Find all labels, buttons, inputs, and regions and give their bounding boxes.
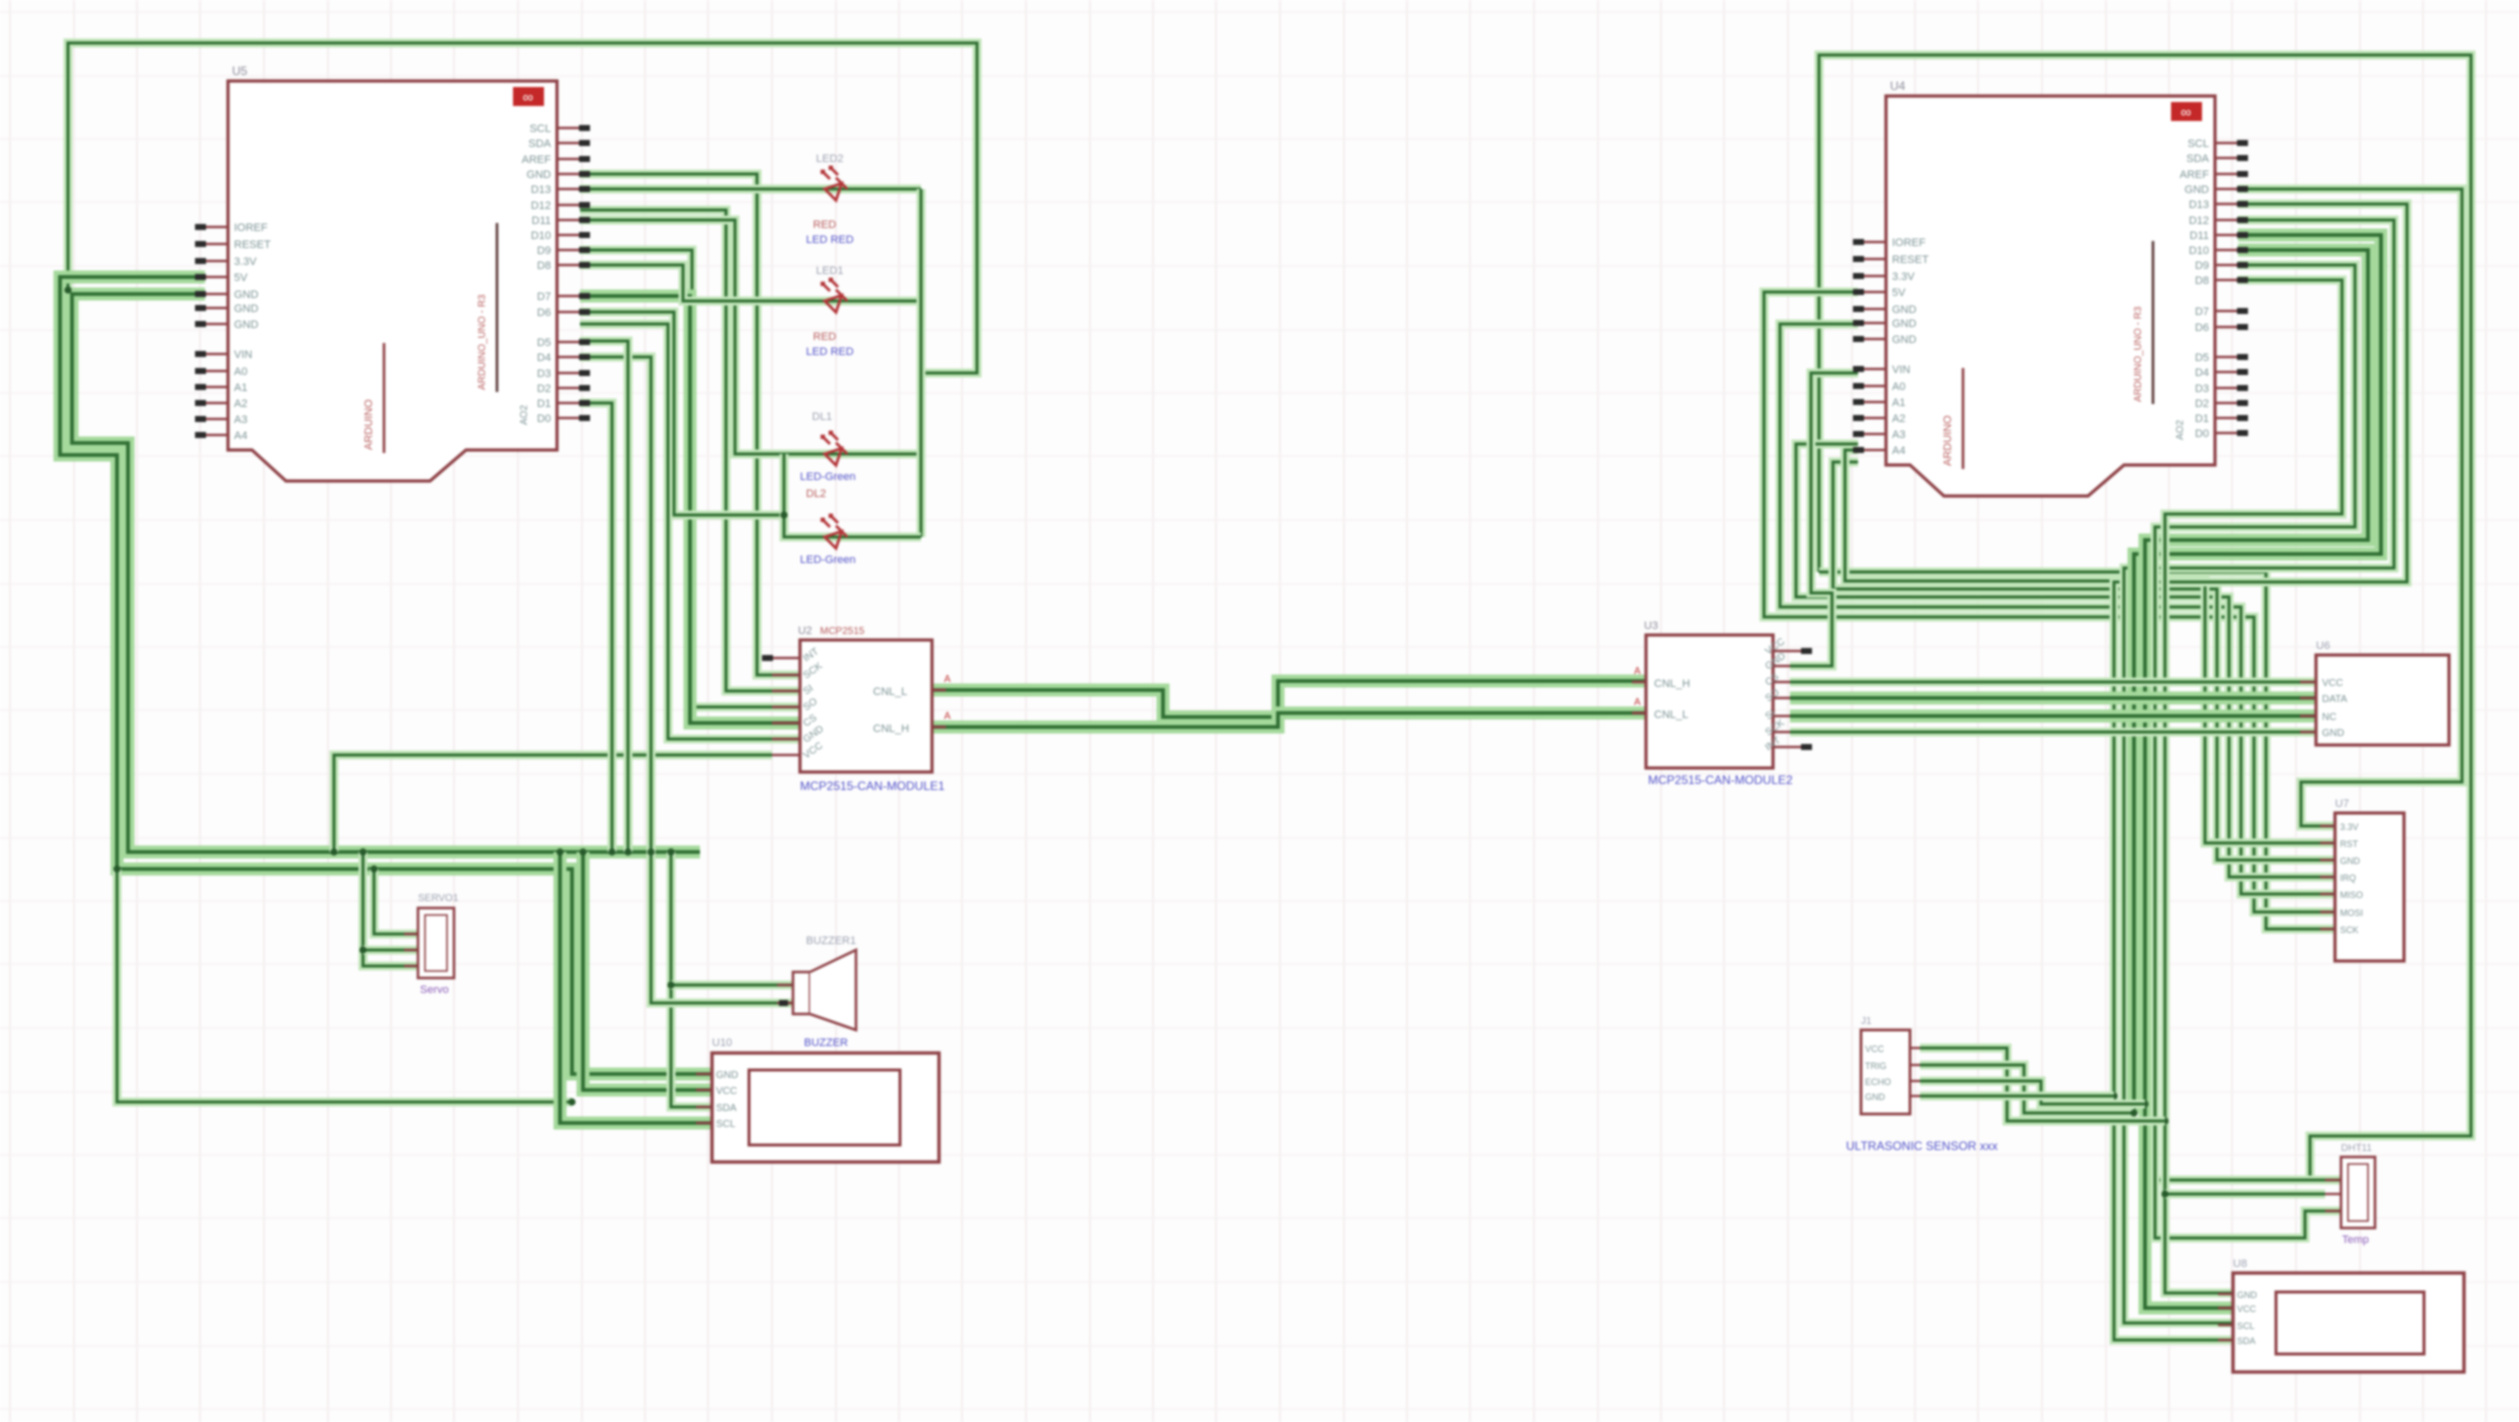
svg-text:SERVO1: SERVO1 (418, 893, 459, 904)
wire D12 to LED1 row (580, 185, 921, 194)
svg-text:3.3V: 3.3V (2340, 822, 2359, 832)
wire D9 to CAN1 CS thick (580, 296, 800, 723)
svg-text:RED: RED (813, 219, 836, 231)
svg-text:VIN: VIN (234, 349, 252, 361)
wire CAN2 p6 (1790, 728, 2316, 737)
svg-text:LED-Green: LED-Green (800, 471, 856, 483)
svg-text:SCL: SCL (716, 1119, 736, 1130)
svg-text:D12: D12 (2189, 215, 2209, 227)
svg-text:SDA: SDA (2186, 153, 2209, 165)
svg-text:DHT11: DHT11 (2341, 1143, 2372, 1154)
wire GND far-left (72, 294, 700, 852)
LCD module U10 (left) (696, 1037, 939, 1162)
svg-text:D5: D5 (537, 337, 551, 349)
svg-text:VCC: VCC (716, 1086, 737, 1097)
junction at (612,852) (608, 848, 615, 855)
svg-text:CNL_L: CNL_L (873, 686, 907, 698)
junction at (2165,1194) (2161, 1190, 2168, 1197)
svg-text:U5: U5 (232, 64, 248, 78)
svg-text:NC: NC (2322, 712, 2336, 723)
junction at (671,985) (667, 981, 674, 988)
svg-text:SCL: SCL (530, 123, 551, 135)
junction at (363,852) (359, 848, 366, 855)
svg-text:SDA: SDA (528, 138, 551, 150)
wire LCD pin2 feed (583, 852, 712, 1090)
svg-text:SDA: SDA (716, 1103, 737, 1114)
wire CANH bus (932, 713, 1646, 727)
junction at (374,869) (370, 865, 377, 872)
svg-text:A2: A2 (234, 398, 247, 410)
svg-text:MCP2515-CAN-MODULE2: MCP2515-CAN-MODULE2 (1648, 773, 1793, 787)
svg-text:A4: A4 (234, 430, 247, 442)
wire D8 to CAN1 GND (580, 324, 800, 739)
svg-text:D1: D1 (537, 398, 551, 410)
svg-text:GND: GND (234, 319, 259, 331)
junction at (651,852) (647, 848, 654, 855)
svg-text:D6: D6 (537, 307, 551, 319)
svg-text:VIN: VIN (1892, 364, 1910, 376)
svg-text:D0: D0 (537, 413, 551, 425)
svg-text:A: A (944, 711, 951, 722)
svg-text:DATA: DATA (2322, 694, 2348, 705)
svg-text:CNL_L: CNL_L (1654, 709, 1688, 721)
svg-text:A0: A0 (1892, 381, 1905, 393)
svg-text:GND: GND (1892, 318, 1917, 330)
svg-text:GND: GND (234, 289, 259, 301)
arduino U5 (left) (195, 64, 590, 481)
junction at (334,852) (330, 848, 337, 855)
svg-text:D7: D7 (537, 291, 551, 303)
svg-text:CNL_H: CNL_H (873, 723, 909, 735)
svg-text:BUZZER: BUZZER (804, 1037, 848, 1049)
wire 5V thick far-left (60, 277, 712, 1074)
svg-text:VCC: VCC (2322, 678, 2343, 689)
svg-text:A2: A2 (1892, 413, 1905, 425)
wire A2 R5 (2155, 265, 2355, 1238)
connector Temp sensor (2325, 1143, 2375, 1246)
svg-text:LED1: LED1 (816, 265, 844, 277)
svg-text:GND: GND (2340, 856, 2361, 866)
junction at (921,373) (917, 369, 924, 376)
svg-text:U2: U2 (798, 625, 812, 637)
svg-text:BUZZER1: BUZZER1 (806, 935, 856, 947)
svg-text:DL2: DL2 (806, 488, 826, 500)
svg-text:ARDUINO: ARDUINO (1942, 415, 1954, 466)
svg-text:D9: D9 (537, 245, 551, 257)
svg-text:GND: GND (234, 303, 259, 315)
wire servo pin3 branch (363, 946, 418, 955)
svg-text:D8: D8 (537, 260, 551, 272)
junction at (2165,1121) (2161, 1117, 2168, 1124)
svg-text:A4: A4 (1892, 445, 1905, 457)
svg-text:CNL_H: CNL_H (1654, 678, 1690, 690)
wire D6 drop a (580, 341, 628, 852)
connector J1 ultrasonic sensor (1846, 1016, 1998, 1153)
wire A2 L1 (1764, 292, 2335, 912)
wire DL left rail (784, 454, 921, 537)
svg-text:U6: U6 (2316, 640, 2330, 652)
wire US p3 (1920, 1081, 2145, 1104)
svg-text:∞: ∞ (523, 89, 534, 106)
svg-text:LED RED: LED RED (806, 346, 854, 358)
wire Temp pin1 feed (2155, 1176, 2341, 1185)
svg-text:D13: D13 (2189, 199, 2209, 211)
svg-text:GND: GND (527, 169, 552, 181)
junction at (583,852) (579, 848, 586, 855)
wire A2 L3 to CAN2 (1790, 373, 1858, 666)
svg-text:RST: RST (2340, 839, 2359, 849)
arduino U4 (right) (1853, 79, 2248, 496)
svg-text:∞: ∞ (2181, 104, 2192, 121)
svg-text:IOREF: IOREF (1892, 237, 1926, 249)
svg-text:D3: D3 (537, 368, 551, 380)
OLED module U8 (right) (2218, 1258, 2464, 1372)
junction at (572,1102) (568, 1098, 575, 1105)
svg-text:3.3V: 3.3V (234, 256, 257, 268)
junction at (560,852) (556, 848, 563, 855)
svg-text:SCK: SCK (2340, 925, 2359, 935)
junction at (117,869) (113, 865, 120, 872)
svg-text:D6: D6 (2195, 322, 2209, 334)
wire A2 R3 (2134, 235, 2381, 1113)
wire CAN2 p4 thick (1790, 692, 2316, 705)
svg-text:AO2: AO2 (2175, 420, 2186, 440)
LED LED1 (red) (806, 265, 854, 358)
wire A2 D12 to RFID p1 (2238, 189, 2462, 826)
IC U2 MCP2515 CAN module left (762, 625, 951, 793)
svg-text:D10: D10 (2189, 245, 2209, 257)
svg-text:J1: J1 (1861, 1016, 1872, 1027)
svg-text:Temp: Temp (2342, 1234, 2369, 1246)
wire A2 R6 tap temp2 (2165, 1190, 2325, 1199)
svg-text:U7: U7 (2335, 798, 2349, 810)
svg-text:Servo: Servo (420, 984, 449, 996)
junction at (2134,1113) (2130, 1109, 2137, 1116)
wire US p1 (1920, 1048, 2165, 1121)
wire A2 R6 (2165, 280, 2342, 1293)
svg-text:D3: D3 (2195, 383, 2209, 395)
wire D9 drop c (580, 357, 793, 1003)
svg-text:A3: A3 (234, 414, 247, 426)
wire D11 to CAN1 SI (580, 210, 800, 691)
svg-text:AO2: AO2 (519, 405, 530, 425)
junction at (363,950) (359, 946, 366, 953)
svg-text:GND: GND (1892, 334, 1917, 346)
svg-text:MCP2515-CAN-MODULE1: MCP2515-CAN-MODULE1 (800, 779, 945, 793)
wire A2 R2 (2124, 220, 2394, 1323)
junction at (628,852) (624, 848, 631, 855)
wire A2 L4 (1796, 444, 2335, 877)
svg-text:A: A (1634, 666, 1641, 677)
wire US p4 (1920, 1092, 2114, 1101)
IC U3 MCP2515 CAN module right (1632, 620, 1812, 787)
LED DL1 (green) (800, 411, 856, 500)
wire net N$1 top frame left (68, 43, 977, 373)
svg-text:DL1: DL1 (812, 411, 832, 423)
svg-text:D4: D4 (2195, 367, 2209, 379)
svg-text:3.3V: 3.3V (1892, 271, 1915, 283)
wire LED2 feed (580, 265, 921, 301)
junction at (784,515) (780, 511, 787, 518)
wire servo pin2 feed (363, 852, 418, 966)
svg-text:D10: D10 (531, 230, 551, 242)
junction at (2145,1104) (2141, 1100, 2148, 1107)
wire right frame top (1819, 55, 2471, 1180)
LED LED2 (red) (806, 153, 854, 246)
wire D7 to LED green feed (580, 312, 784, 515)
svg-text:SCL: SCL (2237, 1321, 2255, 1331)
wire D13 to CAN1 SCK (580, 174, 800, 675)
svg-text:A1: A1 (1892, 397, 1905, 409)
svg-text:GND: GND (2237, 1290, 2258, 1300)
svg-text:D8: D8 (2195, 275, 2209, 287)
wire CAN1 VCC long (334, 755, 772, 852)
svg-text:RED: RED (813, 331, 836, 343)
wire US p2 (1920, 1065, 2134, 1113)
svg-text:LED-Green: LED-Green (800, 554, 856, 566)
svg-text:U4: U4 (1890, 79, 1906, 93)
svg-text:AREF: AREF (2180, 169, 2210, 181)
svg-text:MCP2515: MCP2515 (820, 626, 865, 637)
svg-text:A0: A0 (234, 366, 247, 378)
wire CANL bus (932, 681, 1646, 717)
wire buzzer1/LCD3 vertical (671, 852, 712, 1107)
junction at (2155,1180) (2151, 1176, 2158, 1183)
svg-text:ECHO: ECHO (1865, 1077, 1891, 1087)
wire D5 drop b (580, 403, 612, 852)
wire A2 L2 (1780, 324, 2335, 894)
svg-text:A: A (1634, 697, 1641, 708)
junction at (2114,1096) (2110, 1092, 2117, 1099)
LED DL2 (green) (800, 515, 856, 566)
svg-text:D0: D0 (2195, 428, 2209, 440)
svg-text:ULTRASONIC SENSOR xxx: ULTRASONIC SENSOR xxx (1846, 1139, 1998, 1153)
svg-text:GND: GND (1892, 304, 1917, 316)
svg-text:LED RED: LED RED (806, 234, 854, 246)
module U6 DHT11 right-top (2300, 640, 2449, 745)
svg-text:U3: U3 (1644, 620, 1658, 632)
svg-text:D4: D4 (537, 352, 551, 364)
svg-text:5V: 5V (1892, 287, 1906, 299)
wire LCD pin4 feed (560, 852, 712, 1123)
wire A2 R4 (2145, 250, 2368, 1308)
svg-text:D9: D9 (2195, 260, 2209, 272)
junction at (68,290) (64, 286, 71, 293)
connector SERVO1 (404, 893, 459, 996)
wire LED right rail (917, 189, 926, 537)
svg-text:VCC: VCC (1865, 1044, 1885, 1054)
svg-text:D13: D13 (531, 184, 551, 196)
svg-text:LED2: LED2 (816, 153, 844, 165)
wire CAN2 p3 (1790, 678, 2316, 687)
svg-text:RESET: RESET (1892, 254, 1929, 266)
svg-text:ARDUINO_UNO - R3: ARDUINO_UNO - R3 (477, 294, 488, 390)
svg-text:TRIG: TRIG (1865, 1061, 1887, 1071)
wire frame to RFID p7 (1819, 572, 2335, 929)
module U7 RFID right (2320, 798, 2404, 961)
svg-text:U8: U8 (2233, 1258, 2247, 1270)
svg-text:D11: D11 (2190, 230, 2209, 242)
svg-text:D11: D11 (532, 215, 551, 227)
buzzer BUZZER1 (777, 935, 856, 1049)
wire A2 R1 (2114, 204, 2407, 1340)
svg-text:A3: A3 (1892, 429, 1905, 441)
wire D10 to CAN1 SO (580, 250, 800, 707)
svg-text:D5: D5 (2195, 352, 2209, 364)
svg-text:A: A (944, 674, 951, 685)
svg-text:SDA: SDA (2237, 1336, 2256, 1346)
svg-text:D7: D7 (2195, 306, 2209, 318)
svg-text:IRQ: IRQ (2340, 873, 2356, 883)
wire buzzer pin1 branch (671, 981, 793, 990)
svg-text:ARDUINO_UNO - R3: ARDUINO_UNO - R3 (2133, 306, 2144, 402)
svg-text:D2: D2 (2195, 398, 2209, 410)
svg-text:D2: D2 (537, 383, 551, 395)
svg-text:5V: 5V (234, 272, 248, 284)
wire CAN2 p5 thick (1790, 710, 2316, 723)
svg-text:A1: A1 (234, 382, 247, 394)
svg-text:GND: GND (2322, 728, 2344, 739)
wire servo pin1 feed (374, 869, 418, 934)
svg-text:ARDUINO: ARDUINO (363, 399, 375, 450)
svg-text:IOREF: IOREF (234, 222, 268, 234)
wire far-left lower link (117, 869, 572, 1102)
svg-text:AREF: AREF (522, 154, 552, 166)
wire A2 L6 (1845, 450, 2335, 843)
svg-text:SCL: SCL (2188, 138, 2209, 150)
junction at (671,852) (667, 848, 674, 855)
svg-text:D12: D12 (531, 200, 551, 212)
svg-text:GND: GND (716, 1070, 738, 1081)
svg-text:RESET: RESET (234, 239, 271, 251)
svg-text:GND: GND (2185, 184, 2210, 196)
wire A2 L5 (1833, 462, 2335, 860)
svg-text:VCC: VCC (2237, 1304, 2257, 1314)
svg-text:GND: GND (1865, 1092, 1886, 1102)
svg-text:U10: U10 (712, 1037, 732, 1049)
svg-text:MOSI: MOSI (2340, 908, 2363, 918)
svg-text:D1: D1 (2195, 413, 2209, 425)
svg-text:MISO: MISO (2340, 890, 2363, 900)
wire D11b to DL1 row (580, 220, 921, 454)
